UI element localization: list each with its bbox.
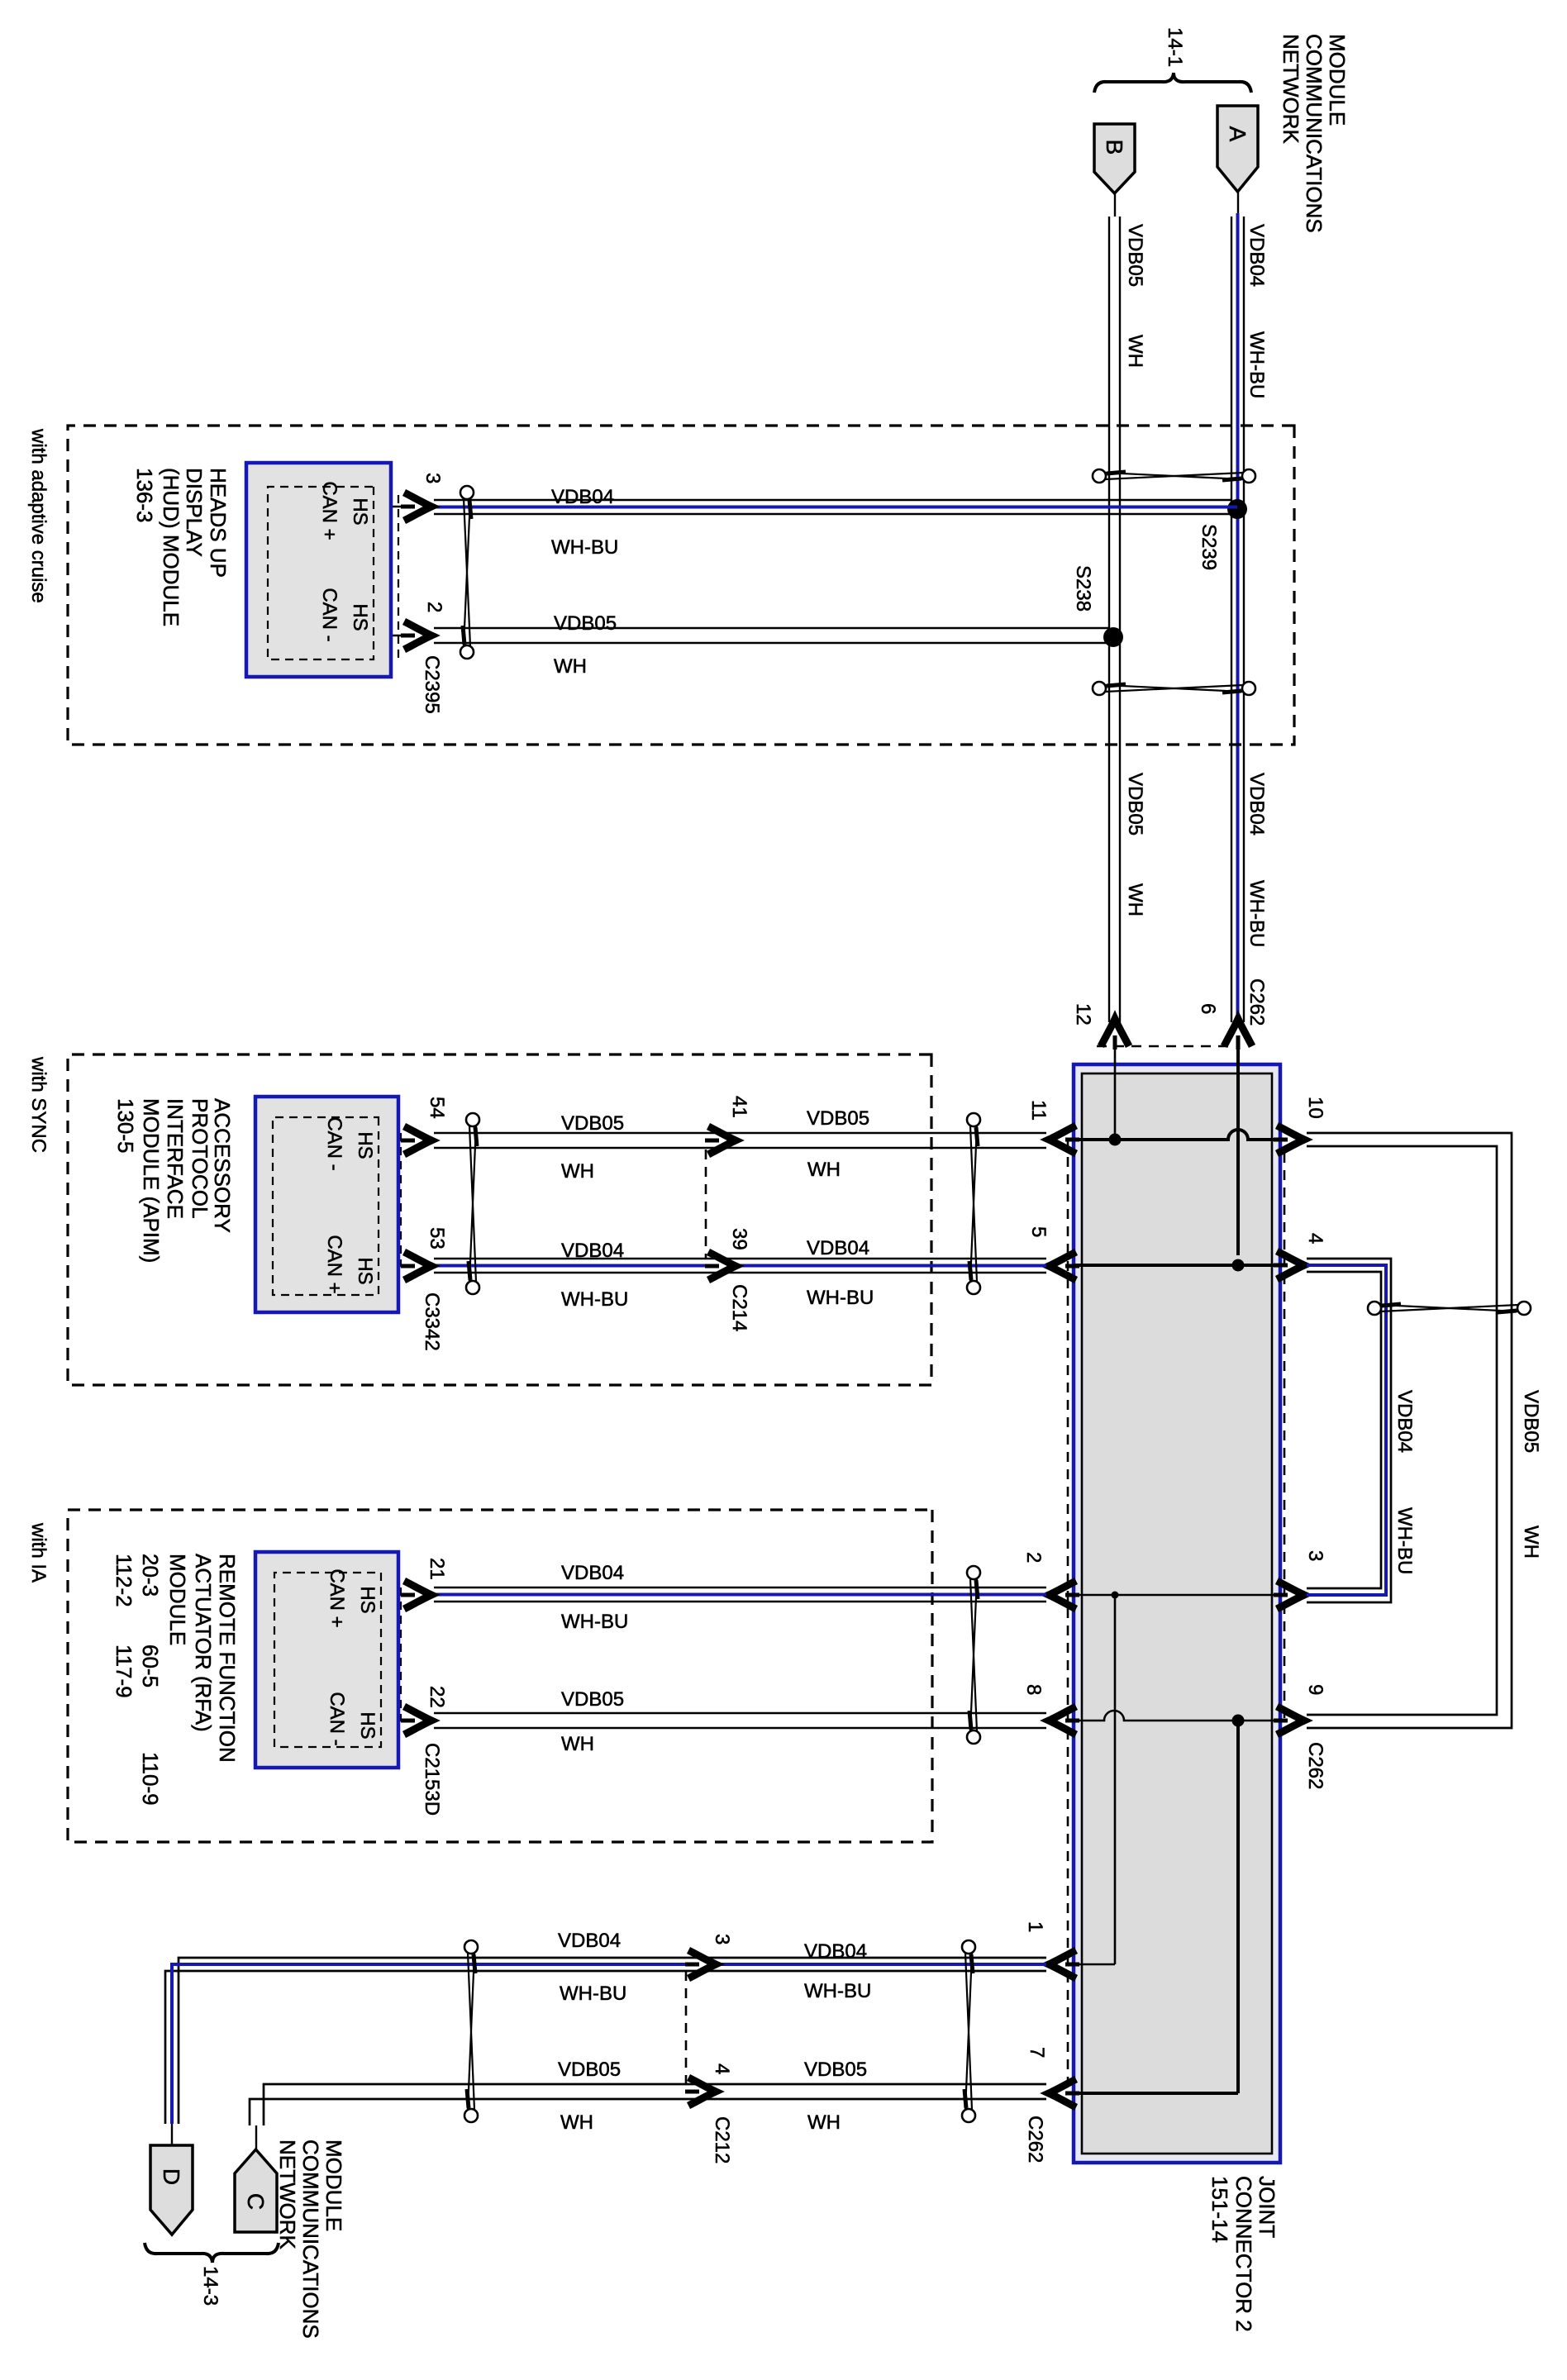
wire VDB05 WH bus (net B) — [1114, 193, 1116, 217]
JC2 internal: wire A to pins 5/4 junction — [1236, 1046, 1240, 1255]
splice S238 — [1103, 627, 1123, 647]
svg-text:C262: C262 — [1246, 978, 1268, 1026]
svg-text:B: B — [1102, 140, 1127, 155]
svg-text:VDB05: VDB05 — [554, 612, 617, 635]
pin 3 (JC2 top) — [1280, 1594, 1306, 1597]
svg-text:4: 4 — [1304, 1233, 1326, 1244]
svg-text:136-3: 136-3 — [132, 468, 157, 523]
svg-text:WH: WH — [1520, 1526, 1542, 1559]
svg-text:VDB05: VDB05 — [561, 1112, 624, 1135]
svg-text:C: C — [243, 2193, 269, 2210]
svg-text:C262: C262 — [1024, 2116, 1046, 2163]
pin 7 (JC2 bottom) — [1048, 2092, 1074, 2095]
svg-text:2: 2 — [423, 602, 445, 612]
svg-text:S239: S239 — [1198, 524, 1220, 570]
pin 10 (JC2 top) — [1280, 1139, 1306, 1141]
svg-text:5: 5 — [1027, 1226, 1050, 1237]
dashed enclosure: with IA — [68, 1510, 932, 1842]
wire VDB04 WH-BU pin 2 to RFA 21 — [434, 1587, 1046, 1588]
svg-text:with IA: with IA — [27, 1522, 50, 1583]
svg-text:ACCESSORY: ACCESSORY — [210, 1098, 235, 1233]
pin 6 arrow (C262, wire A) — [1224, 1017, 1252, 1050]
svg-text:WH: WH — [554, 655, 587, 678]
JC2 internal: pins 8-9 vertical with hop over pin1 line — [1074, 1711, 1279, 1721]
pin 11 (JC2 bottom) — [1048, 1139, 1074, 1141]
svg-text:with adaptive cruise: with adaptive cruise — [27, 428, 50, 603]
svg-text:WH-BU: WH-BU — [1246, 331, 1268, 398]
svg-text:21: 21 — [426, 1558, 448, 1580]
svg-text:COMMUNICATIONS: COMMUNICATIONS — [298, 2140, 323, 2339]
svg-text:CONNECTOR 2: CONNECTOR 2 — [1231, 2176, 1256, 2332]
svg-text:CAN +: CAN + — [326, 1568, 348, 1627]
off-page connector C — [235, 2149, 277, 2232]
svg-text:VDB04: VDB04 — [551, 486, 614, 508]
svg-text:VDB04: VDB04 — [561, 1562, 624, 1584]
svg-text:WH-BU: WH-BU — [560, 1983, 626, 2005]
svg-text:WH: WH — [561, 1160, 594, 1183]
svg-text:WH-BU: WH-BU — [1393, 1507, 1416, 1574]
svg-text:HS: HS — [349, 497, 371, 525]
svg-text:CAN +: CAN + — [318, 481, 341, 540]
svg-text:VDB04: VDB04 — [558, 1930, 621, 1952]
pin 1 (JC2 bottom) — [1048, 1963, 1074, 1966]
svg-text:VDB05: VDB05 — [1124, 773, 1146, 835]
C212 arrow on VDB05 wire, pin 4 — [685, 2078, 717, 2106]
wire VDB04 WH-BU bus (net A) — [1237, 192, 1239, 217]
svg-text:VDB04: VDB04 — [1246, 224, 1268, 287]
wire VDB04 WH-BU pin 5 to APIM 53 — [434, 1258, 1046, 1259]
svg-text:C212: C212 — [711, 2116, 733, 2163]
svg-text:8: 8 — [1022, 1684, 1045, 1695]
svg-text:(HUD) MODULE: (HUD) MODULE — [159, 468, 183, 626]
wire VDB05 WH loop pin 10 to pin 9 — [1307, 1133, 1512, 1728]
svg-text:39: 39 — [728, 1228, 750, 1250]
svg-text:WH-BU: WH-BU — [1246, 880, 1268, 947]
svg-text:HS: HS — [356, 1711, 379, 1739]
svg-text:C3342: C3342 — [421, 1292, 443, 1351]
svg-text:HS: HS — [354, 1257, 376, 1284]
connector C262 dashed line (top) — [1284, 1153, 1286, 1723]
inline connector (bowtie) on APIM wires near JC2 — [967, 1113, 980, 1126]
svg-text:WH: WH — [807, 1159, 841, 1181]
wire VDB04 WH-BU loop pin 4 to pin 3 — [1307, 1259, 1391, 1602]
svg-text:130-5: 130-5 — [113, 1098, 138, 1154]
svg-text:20-3: 20-3 — [138, 1554, 163, 1597]
svg-text:COMMUNICATIONS: COMMUNICATIONS — [1302, 34, 1326, 233]
svg-text:151-14: 151-14 — [1207, 2176, 1232, 2243]
pin 4 (JC2 top) — [1280, 1264, 1306, 1267]
wire VDB04 WH-BU pin 1 to connector D — [179, 1958, 1046, 2124]
svg-text:ACTUATOR (RFA): ACTUATOR (RFA) — [191, 1554, 216, 1732]
svg-text:WH: WH — [1124, 335, 1146, 368]
svg-text:VDB04: VDB04 — [1393, 1390, 1416, 1453]
svg-text:VDB05: VDB05 — [804, 2059, 867, 2081]
C212 arrow on VDB04 wire, pin 3 — [685, 1950, 717, 1978]
pin 8 (JC2 bottom) — [1048, 1720, 1074, 1722]
svg-text:110-9: 110-9 — [138, 1752, 163, 1806]
svg-text:C262: C262 — [1304, 1742, 1326, 1789]
pin 9 (JC2 top) — [1280, 1720, 1306, 1722]
inline connector (bowtie) on buses at x=576 — [1242, 469, 1255, 483]
svg-text:14-1: 14-1 — [1164, 27, 1186, 67]
svg-text:3: 3 — [1304, 1550, 1326, 1561]
svg-text:NETWORK: NETWORK — [275, 2140, 300, 2250]
svg-text:CAN -: CAN - — [318, 588, 341, 641]
svg-text:MODULE: MODULE — [1325, 34, 1350, 126]
pin 2 (JC2 bottom) — [1048, 1594, 1074, 1597]
svg-text:10: 10 — [1304, 1097, 1326, 1119]
module box: ACCESSORY PROTOCOL INTERFACE MODULE (APIM) — [255, 1097, 398, 1312]
brace 14-3 — [145, 2243, 279, 2263]
joint connector 2 outer box — [1074, 1064, 1280, 2163]
C214 arrow on VDB04 wire, pin 39 — [705, 1252, 737, 1280]
module box: REMOTE FUNCTION ACTUATOR (RFA) MODULE — [255, 1552, 398, 1768]
svg-text:11: 11 — [1027, 1100, 1050, 1121]
svg-text:6: 6 — [1197, 1003, 1219, 1014]
svg-text:HS: HS — [356, 1586, 379, 1613]
splice S239 — [1227, 499, 1247, 519]
svg-text:D: D — [159, 2168, 184, 2185]
module box: HEADS UP DISPLAY (HUD) MODULE — [246, 463, 391, 677]
svg-text:VDB04: VDB04 — [561, 1240, 624, 1262]
connector C212 dashed line — [685, 1971, 688, 2084]
svg-text:WH-BU: WH-BU — [561, 1288, 628, 1311]
svg-text:C2395: C2395 — [421, 655, 443, 714]
svg-text:C214: C214 — [728, 1284, 750, 1331]
dashed enclosure: with adaptive cruise — [68, 426, 1294, 745]
svg-text:53: 53 — [426, 1227, 448, 1249]
off-page connector D — [150, 2145, 193, 2235]
svg-text:VDB05: VDB05 — [807, 1107, 869, 1130]
svg-text:9: 9 — [1304, 1684, 1326, 1695]
svg-text:C2153D: C2153D — [421, 1743, 443, 1816]
svg-text:PROTOCOL: PROTOCOL — [188, 1098, 212, 1218]
RFA inner dashed sub-box — [274, 1573, 381, 1747]
svg-text:WH: WH — [561, 1733, 594, 1755]
svg-text:WH-BU: WH-BU — [551, 536, 618, 559]
svg-text:VDB05: VDB05 — [561, 1688, 624, 1711]
HUD inner dashed sub-box — [268, 487, 374, 659]
APIM inner dashed sub-box — [273, 1117, 379, 1295]
JC2 internal: pins 11-10 vertical with hop over wire A — [1074, 1130, 1279, 1140]
svg-text:A: A — [1225, 126, 1250, 142]
inline connector (bowtie) on C/D wires near JC2 — [962, 1940, 975, 1954]
svg-text:NETWORK: NETWORK — [1279, 34, 1303, 145]
svg-text:VDB04: VDB04 — [807, 1237, 869, 1259]
svg-text:CAN -: CAN - — [326, 1692, 348, 1745]
dashed enclosure: with SYNC — [68, 1054, 931, 1385]
svg-text:54: 54 — [426, 1097, 448, 1119]
inline connector (bowtie) on HUD drop wires — [460, 486, 474, 499]
svg-text:12: 12 — [1072, 1003, 1094, 1026]
JC2 internal: pins 5-4 vertical — [1074, 1264, 1279, 1267]
svg-text:VDB04: VDB04 — [804, 1940, 867, 1963]
svg-text:HS: HS — [354, 1131, 376, 1159]
connector face dashed line C2395 — [398, 495, 399, 660]
inline connector (bowtie) on buses at x=833 — [1242, 682, 1255, 695]
pin 12 arrow (C262, wire B) — [1101, 1017, 1129, 1050]
svg-text:22: 22 — [426, 1686, 448, 1708]
svg-text:14-3: 14-3 — [199, 2266, 221, 2306]
wire VDB05 WH pin 7 to connector C — [264, 2084, 1046, 2125]
svg-text:WH: WH — [807, 2111, 841, 2134]
wire VDB04 WH-BU drop to HUD pin 3 — [434, 499, 1231, 501]
svg-text:2: 2 — [1022, 1552, 1045, 1563]
wire VDB05 WH pin 11 to APIM 54 — [434, 1132, 1046, 1134]
JC2 internal: pins 2-3 vertical — [1074, 1594, 1279, 1597]
svg-text:REMOTE FUNCTION: REMOTE FUNCTION — [215, 1554, 240, 1763]
svg-text:with SYNC: with SYNC — [27, 1056, 50, 1153]
wire VDB05 WH drop to HUD pin 2 — [434, 627, 1109, 629]
svg-text:112-2: 112-2 — [112, 1554, 136, 1607]
C214 arrow on VDB05 wire, pin 41 — [705, 1126, 737, 1154]
svg-text:JOINT: JOINT — [1255, 2176, 1279, 2238]
pin 5 (JC2 bottom) — [1048, 1264, 1074, 1267]
svg-text:CAN +: CAN + — [323, 1235, 345, 1293]
svg-text:1: 1 — [1024, 1921, 1046, 1932]
svg-text:4: 4 — [711, 2063, 733, 2074]
joint connector 2 inner box — [1082, 1073, 1272, 2154]
wire VDB05 WH pin 8 to RFA 22 — [434, 1712, 1046, 1714]
svg-text:CAN -: CAN - — [323, 1116, 345, 1170]
svg-text:3: 3 — [422, 473, 444, 483]
svg-text:HS: HS — [349, 603, 371, 631]
brace 14-1 — [1094, 73, 1251, 93]
JC2 internal: pin 1 branch from pins 2-3 line — [1112, 1592, 1119, 1599]
off-page connector B — [1094, 124, 1135, 193]
svg-text:WH-BU: WH-BU — [807, 1287, 874, 1309]
svg-text:60-5: 60-5 — [138, 1645, 163, 1687]
inline connector (bowtie) on C/D wires near C212 — [464, 1940, 478, 1954]
svg-text:117-9: 117-9 — [112, 1645, 136, 1698]
inline connector (bowtie) on APIM wires near module — [466, 1113, 479, 1126]
inline connector (bowtie) on RFA wires — [967, 1566, 980, 1579]
svg-text:MODULE (APIM): MODULE (APIM) — [139, 1098, 164, 1263]
inline connector (bowtie) on loop wires — [1517, 1302, 1531, 1315]
svg-text:WH: WH — [1124, 883, 1146, 916]
svg-text:S238: S238 — [1072, 565, 1094, 612]
connector face dashed line C3342 — [400, 1133, 402, 1266]
off-page connector A — [1217, 106, 1258, 192]
svg-text:WH: WH — [560, 2111, 593, 2134]
connector C262 dashed line (left, pins 12/6) — [1089, 1045, 1228, 1048]
JC2 internal: pin 7 branch from pins 8-9 line — [1232, 1715, 1245, 1727]
svg-text:WH-BU: WH-BU — [804, 1980, 871, 2002]
svg-text:VDB04: VDB04 — [1246, 773, 1268, 835]
svg-text:INTERFACE: INTERFACE — [163, 1098, 188, 1219]
svg-text:HEADS UP: HEADS UP — [206, 468, 231, 578]
connector C214 dashed line — [705, 1150, 707, 1259]
svg-text:7: 7 — [1026, 2047, 1048, 2058]
connector C262 dashed line (bottom) — [1067, 1140, 1069, 2093]
connector face dashed line C2153D — [400, 1587, 402, 1721]
JC2 internal: wire B to pins 11/10 junction — [1114, 1046, 1117, 1140]
svg-text:3: 3 — [711, 1934, 733, 1944]
svg-text:MODULE: MODULE — [321, 2140, 346, 2231]
svg-text:VDB05: VDB05 — [558, 2059, 621, 2081]
svg-text:DISPLAY: DISPLAY — [182, 468, 207, 557]
svg-text:WH-BU: WH-BU — [561, 1611, 628, 1633]
svg-text:41: 41 — [728, 1096, 750, 1118]
svg-text:VDB05: VDB05 — [1520, 1390, 1542, 1453]
svg-text:VDB05: VDB05 — [1124, 224, 1146, 287]
svg-text:MODULE: MODULE — [165, 1554, 190, 1645]
